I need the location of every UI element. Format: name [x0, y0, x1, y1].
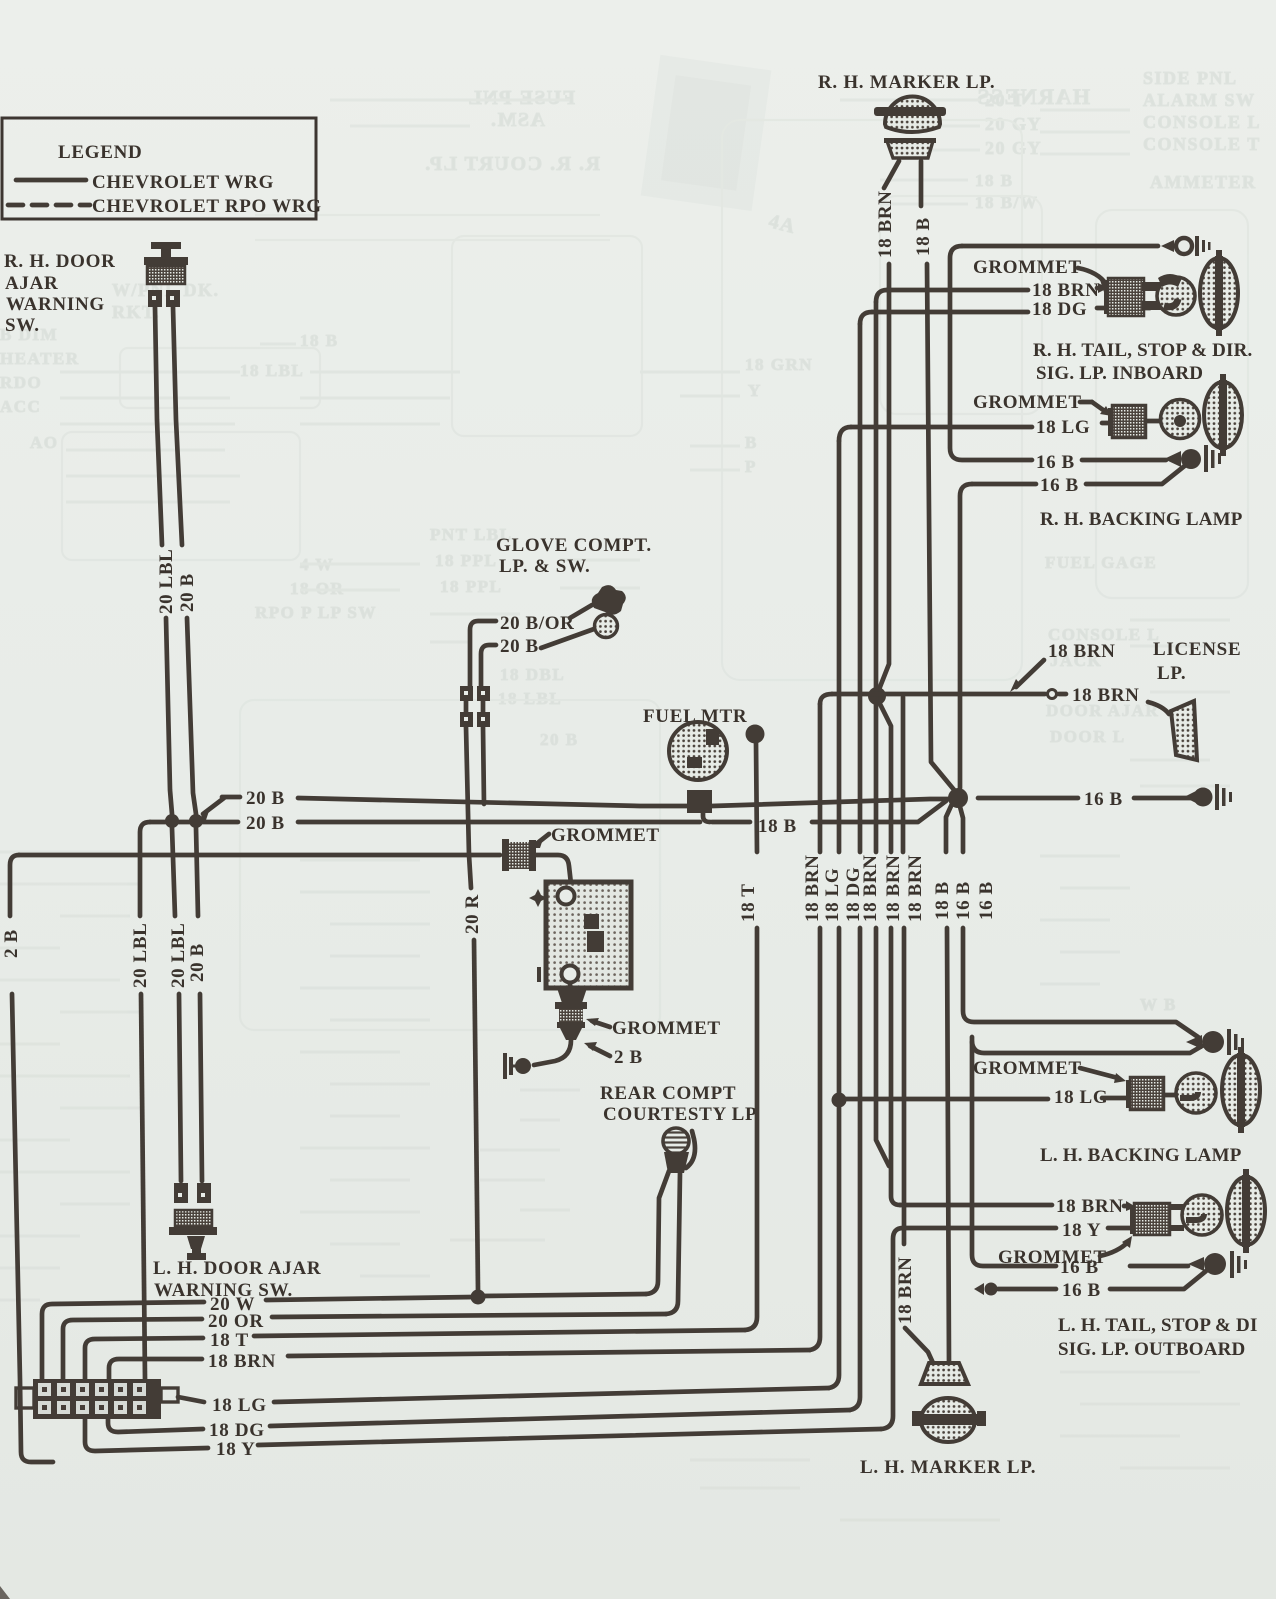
wire 18 Y (L.H. tail)	[881, 1220, 1140, 1429]
wire 16 B (lower pair, second) with inline terminal	[974, 1271, 1206, 1301]
svg-text:GROMMET: GROMMET	[973, 1058, 1082, 1079]
svg-text:WARNING: WARNING	[6, 294, 105, 315]
connector: top harness end	[1161, 236, 1211, 256]
svg-text:20 T: 20 T	[985, 90, 1025, 110]
label: LICENSE LP.	[1153, 639, 1241, 684]
label GROMMET with leader	[531, 825, 660, 848]
label GROMMET (L.H. tail) with leader	[998, 1236, 1132, 1268]
svg-text:18 BRN: 18 BRN	[875, 191, 896, 258]
ground symbol	[505, 1053, 531, 1079]
label: R.H. TAIL STOP DIR INBOARD	[1033, 340, 1252, 384]
svg-text:SW.: SW.	[5, 315, 40, 336]
terminal: 18 T round stud	[746, 725, 765, 744]
terminal +	[529, 889, 547, 907]
bulb: L.H. backing	[1164, 1073, 1216, 1113]
terminal: fuel meter connector (black square)	[687, 790, 712, 813]
grommet G2: R.H. backing	[1108, 405, 1146, 438]
label GROMMET (R.H. lower) with leader	[973, 392, 1112, 416]
wire 20 B from glove switch	[481, 629, 594, 686]
svg-text:18 LG: 18 LG	[1036, 417, 1090, 438]
wire 20 LBL (R.H. switch lead 1)	[155, 307, 189, 1181]
connector: upper 16 B harness end	[1186, 1029, 1244, 1055]
svg-text:18 BRN: 18 BRN	[1056, 1196, 1123, 1217]
wire 20 R (glove feed to junction)	[462, 727, 483, 1290]
svg-text:18 B: 18 B	[975, 171, 1014, 190]
wire: main line L1 (20 B / 16 B ground run)	[222, 788, 1192, 810]
wire 16 B (to tail connector lower)	[972, 881, 1202, 1266]
svg-text:CHEVROLET WRG: CHEVROLET WRG	[92, 172, 274, 193]
wire 18 DG (fan line)	[108, 1410, 850, 1441]
svg-text:20 LBL: 20 LBL	[168, 923, 189, 988]
node: junction 2	[948, 788, 968, 808]
svg-text:GROMMET: GROMMET	[973, 257, 1082, 278]
wire 18 T (fan line)	[85, 1330, 745, 1379]
wire 18 LG (fan line)	[178, 1388, 829, 1416]
svg-text:18 BRN: 18 BRN	[1032, 280, 1099, 301]
svg-text:18 PPL: 18 PPL	[440, 577, 502, 596]
connector block (rear harness)	[16, 1379, 178, 1419]
grommet G4 (trunk grommet)	[555, 1002, 587, 1040]
node: junction dot 2	[189, 814, 203, 828]
svg-text:2 B: 2 B	[1, 929, 22, 958]
wire 20 B/OR to glove lamp	[470, 605, 592, 686]
svg-text:R. H. TAIL, STOP & DIR.: R. H. TAIL, STOP & DIR.	[1033, 340, 1252, 361]
svg-text:16 B: 16 B	[1062, 1280, 1101, 1301]
svg-text:16 B: 16 B	[1036, 452, 1075, 473]
grommet G5: L.H. backing	[1126, 1077, 1164, 1110]
label: R.H. DOOR AJAR WARNING SW.	[4, 251, 116, 336]
svg-text:20 LBL: 20 LBL	[156, 549, 177, 614]
wire 16 B (top link run)	[950, 246, 1166, 473]
svg-text:16 B: 16 B	[976, 881, 997, 920]
svg-text:18 LG: 18 LG	[212, 1395, 267, 1416]
svg-text:20 B/OR: 20 B/OR	[500, 613, 574, 634]
svg-text:20 B: 20 B	[246, 788, 285, 809]
svg-text:20 GY: 20 GY	[985, 138, 1042, 158]
svg-text:DOOR L: DOOR L	[1050, 727, 1126, 746]
wire 18 BRN (fan line)	[109, 1350, 810, 1379]
svg-text:18 BRN: 18 BRN	[1072, 685, 1139, 706]
svg-text:GLOVE COMPT.: GLOVE COMPT.	[496, 535, 652, 556]
svg-text:18 DG: 18 DG	[209, 1420, 265, 1441]
svg-text:SIG. LP. OUTBOARD: SIG. LP. OUTBOARD	[1058, 1339, 1245, 1360]
wire 20 OR (fan line)	[63, 1311, 666, 1379]
svg-text:L. H. TAIL, STOP & DI: L. H. TAIL, STOP & DI	[1058, 1315, 1258, 1336]
svg-text:18 B: 18 B	[913, 217, 934, 256]
label 2 B with arrow leader	[584, 1042, 643, 1068]
svg-text:SIG. LP. INBOARD: SIG. LP. INBOARD	[1036, 363, 1203, 384]
svg-text:18 B: 18 B	[758, 816, 797, 837]
grommet G3 (floor pan grommet on ground line)	[502, 839, 536, 871]
svg-text:18 LG: 18 LG	[822, 868, 843, 922]
svg-text:LEGEND: LEGEND	[58, 142, 142, 163]
lamp: rear compartment courtesy lamp	[663, 1128, 695, 1173]
svg-text:COURTESTY LP: COURTESTY LP	[603, 1104, 757, 1125]
connector: lower 16 B harness end	[1188, 1251, 1247, 1278]
wire 16 B (lower backing run)	[960, 464, 1187, 788]
wire 18 T (fuel meter sender)	[738, 743, 759, 1330]
svg-text:18 DBL: 18 DBL	[500, 665, 565, 684]
svg-text:GROMMET: GROMMET	[973, 392, 1082, 413]
svg-text:AO: AO	[30, 433, 59, 452]
wire 20 W (fan line)	[42, 1294, 646, 1379]
wire: L1 arrow into junction dot 2	[196, 798, 224, 820]
switch S1: R.H. door ajar warning switch	[144, 242, 188, 307]
lens: L.H. tail outboard	[1227, 1169, 1265, 1253]
svg-text:REAR COMPT: REAR COMPT	[600, 1083, 736, 1104]
svg-text:18 BRN: 18 BRN	[895, 1257, 916, 1324]
svg-text:LP. & SW.: LP. & SW.	[499, 556, 591, 577]
lens: R.H. backing	[1204, 374, 1242, 456]
svg-text:RDO: RDO	[0, 373, 42, 392]
wire: license lamp run 18 BRN	[820, 685, 1169, 714]
svg-text:16 B: 16 B	[1084, 789, 1123, 810]
svg-text:R. R. COURT LP.: R. R. COURT LP.	[424, 153, 600, 175]
lamp: glove compartment lamp	[592, 585, 626, 637]
lamp: L.H. marker base (trapezoid)	[921, 1363, 968, 1384]
svg-text:18 T: 18 T	[738, 884, 759, 922]
wire: battery negative lead	[568, 983, 573, 990]
svg-text:18 GRN: 18 GRN	[745, 355, 813, 374]
label: REAR COMPT COURTESTY LP	[600, 1083, 757, 1125]
wire 18 BRN (license/tail feed)	[802, 704, 823, 1350]
svg-text:CHEVROLET RPO WRG: CHEVROLET RPO WRG	[92, 196, 322, 217]
bulb: R.H. backing	[1146, 400, 1200, 439]
svg-text:B: B	[745, 433, 758, 452]
label: L.H. DOOR AJAR WARNING SW.	[153, 1258, 321, 1301]
node: junction dot (20 R to 20 W)	[471, 1290, 486, 1305]
svg-text:GROMMET: GROMMET	[612, 1018, 721, 1039]
svg-text:20 R: 20 R	[462, 894, 483, 934]
lamp: R.H. marker lamp base (trapezoid)	[884, 138, 936, 158]
svg-text:20 OR: 20 OR	[208, 1311, 264, 1332]
lens: L.H. backing	[1222, 1047, 1260, 1133]
wire 2 B (left edge ground wire)	[1, 855, 53, 1462]
svg-text:18 B: 18 B	[932, 881, 953, 920]
svg-text:LP.: LP.	[1157, 663, 1186, 684]
svg-text:R. H. BACKING LAMP: R. H. BACKING LAMP	[1040, 509, 1243, 530]
wire 20 B (glove ground to main line)	[483, 727, 484, 804]
label GROMMET (L.H. backing) with leader	[973, 1058, 1126, 1083]
svg-text:20 LBL: 20 LBL	[130, 923, 151, 988]
bulb: L.H. tail outboard	[1170, 1195, 1222, 1235]
label GROMMET with arrow leader	[586, 1018, 721, 1039]
legend dashed line: CHEVROLET RPO WRG	[8, 196, 322, 217]
wire 18 DG (R.H. tail inboard lower)	[860, 299, 1150, 324]
svg-text:18 BRN: 18 BRN	[883, 855, 904, 922]
wire 16 B (lower pair, first)	[1060, 1257, 1188, 1278]
svg-text:CONSOLE L: CONSOLE L	[1143, 112, 1261, 132]
node: junction dot 1	[165, 814, 179, 828]
terminal -	[537, 967, 541, 982]
label: L.H. TAIL STOP OUTBOARD	[1058, 1315, 1258, 1360]
svg-text:18 BRN: 18 BRN	[1048, 641, 1115, 662]
wire 2 B to ground	[534, 1040, 571, 1065]
svg-text:P: P	[745, 457, 757, 476]
svg-text:20 B: 20 B	[500, 636, 539, 657]
svg-text:18 Y: 18 Y	[1062, 1220, 1101, 1241]
connector: R.H. backing lamp	[1164, 445, 1221, 472]
socket + bulb: R.H. tail inboard	[1142, 274, 1195, 315]
wire: line L2 (20 B / 18 B run)	[150, 801, 946, 837]
svg-text:16 B: 16 B	[1060, 1257, 1099, 1278]
svg-text:20 B: 20 B	[177, 573, 198, 612]
wire 18 BRN (R.H. tail inboard feed)	[860, 302, 889, 1166]
wire 18 LG (L.H. backing run)	[845, 1087, 1130, 1108]
wire 18 BRN (marker feed through junction 1)	[878, 264, 904, 1205]
svg-text:SIDE PNL: SIDE PNL	[1143, 68, 1238, 88]
svg-text:20 GY: 20 GY	[985, 114, 1042, 134]
svg-text:18 Y: 18 Y	[216, 1439, 256, 1460]
socket below component	[557, 988, 587, 1003]
wire 20 LBL (to connector block)	[130, 822, 151, 1379]
svg-text:RPO P LP SW: RPO P LP SW	[255, 603, 377, 622]
wire: courtesy lamp lead to 20 OR line	[666, 1173, 680, 1314]
svg-text:2 B: 2 B	[614, 1047, 643, 1068]
wire 18 BRN (L.H. tail)	[900, 1196, 1136, 1217]
meter M1: fuel meter	[669, 722, 727, 780]
legend solid line: CHEVROLET WRG	[16, 172, 274, 193]
wire: ground line into battery feed	[536, 855, 571, 884]
svg-text:R. H. MARKER LP.: R. H. MARKER LP.	[818, 72, 995, 93]
wire 16 B (to backing connector upper)	[953, 803, 1198, 1037]
svg-text:L. H. DOOR AJAR: L. H. DOOR AJAR	[153, 1258, 321, 1279]
svg-text:R. H. DOOR: R. H. DOOR	[4, 251, 116, 272]
grommet G6: L.H. tail outboard	[1130, 1203, 1170, 1235]
svg-text:18 LBL: 18 LBL	[240, 361, 304, 380]
svg-text:W B: W B	[1140, 995, 1177, 1014]
svg-text:18 BRN: 18 BRN	[905, 855, 926, 922]
wire 18 LG (R.H. backing run)	[839, 417, 1114, 441]
svg-text:18 LBL: 18 LBL	[498, 689, 562, 708]
label GROMMET (R.H. inboard) with leader	[973, 257, 1110, 292]
wire 20 B (R.H. switch lead 2)	[173, 307, 208, 1181]
svg-text:GROMMET: GROMMET	[551, 825, 660, 846]
svg-text:L. H. MARKER LP.: L. H. MARKER LP.	[860, 1457, 1036, 1478]
svg-text:16 B: 16 B	[1040, 475, 1079, 496]
component: rear body feed (hatched box)	[546, 882, 631, 988]
svg-text:AMMETER: AMMETER	[1150, 172, 1257, 192]
svg-text:18 BRN: 18 BRN	[802, 855, 823, 922]
wire 18 Y (fan line)	[85, 1419, 881, 1460]
svg-text:LICENSE: LICENSE	[1153, 639, 1241, 660]
svg-text:18 DG: 18 DG	[843, 867, 864, 922]
svg-text:ASM.: ASM.	[490, 109, 545, 131]
lamp: R.H. marker lamp dome	[874, 97, 946, 133]
switch S2: L.H. door ajar warning switch	[169, 1183, 217, 1260]
node: junction dot on 18 LG	[832, 1093, 847, 1108]
label 18 BRN with arrow to license run	[1010, 641, 1115, 692]
legend box	[2, 118, 316, 219]
wire 18 B (to L.H. marker right lead)	[932, 793, 957, 1363]
connector pair (glove harness)	[460, 686, 490, 727]
svg-text:20 B: 20 B	[187, 943, 208, 982]
wire 18 BRN (R.H. tail inboard upper)	[876, 280, 1108, 302]
svg-text:Y: Y	[748, 381, 762, 400]
svg-text:20 B: 20 B	[246, 813, 285, 834]
wire 18 LG (backing lamp feed)	[822, 441, 843, 1388]
svg-text:18 PPL: 18 PPL	[435, 551, 497, 570]
wire: main ground line (2 B horizontal run)	[19, 853, 500, 858]
lamp: license lamp	[1171, 701, 1197, 760]
svg-text:ALARM SW: ALARM SW	[1143, 90, 1256, 110]
wire 18 BRN (L.H. marker feed)	[895, 697, 933, 1363]
svg-text:FUSE PNL: FUSE PNL	[467, 87, 575, 109]
svg-text:L. H. BACKING LAMP: L. H. BACKING LAMP	[1040, 1145, 1242, 1166]
svg-text:18 DG: 18 DG	[1032, 299, 1087, 320]
svg-text:FUEL GAGE: FUEL GAGE	[1045, 553, 1157, 572]
label: GLOVE COMPT. LP. & SW.	[496, 535, 652, 577]
svg-text:18 BRN: 18 BRN	[208, 1351, 276, 1372]
wire 18 DG (R.H. tail inboard lower feed)	[843, 324, 864, 1410]
svg-text:18 T: 18 T	[210, 1330, 249, 1351]
connector: 16 B harness end (right of L1)	[1184, 784, 1232, 810]
svg-text:ACC: ACC	[0, 397, 41, 416]
lamp: L.H. marker dome	[912, 1398, 986, 1442]
lens: R.H. tail inboard	[1200, 250, 1238, 336]
wire 18 B (R.H. marker right lead)	[913, 161, 955, 791]
svg-text:20 B: 20 B	[540, 730, 579, 749]
svg-text:16 B: 16 B	[953, 881, 974, 920]
grommet G1: R.H. tail inboard	[1104, 278, 1144, 316]
svg-text:CONSOLE T: CONSOLE T	[1143, 134, 1261, 154]
svg-text:HEATER: HEATER	[0, 349, 80, 368]
svg-text:AJAR: AJAR	[5, 273, 58, 294]
node: junction 1	[868, 687, 886, 705]
wire: courtesy lamp lead to 20 W line	[646, 1171, 669, 1294]
wire 18 BRN (R.H. marker left lead)	[875, 161, 899, 258]
